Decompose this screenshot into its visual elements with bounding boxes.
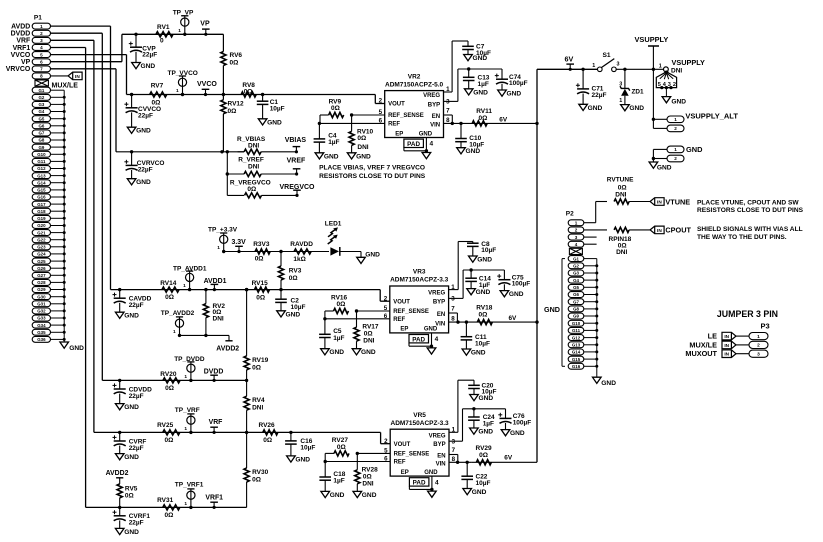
svg-text:1: 1 [674,147,677,152]
svg-text:G33: G33 [37,316,46,321]
svg-text:GND: GND [477,257,492,264]
svg-text:1kΩ: 1kΩ [293,256,305,263]
svg-text:S1: S1 [603,52,611,59]
net tick DVDD [204,368,224,382]
svg-text:GND: GND [267,119,282,126]
svg-text:IN: IN [657,199,662,204]
svg-text:GND: GND [473,55,488,62]
svg-text:GND: GND [478,429,493,436]
svg-text:2: 2 [575,228,578,233]
ground - RV28 [353,491,377,499]
svg-text:G12: G12 [37,166,46,171]
resistor R_VBIAS DNI [226,136,297,154]
svg-text:GND: GND [476,289,491,296]
svg-text:GND: GND [356,153,371,160]
LED LED1 [279,220,361,257]
ground - CAVDD [115,312,139,320]
test point TP_DVDD [174,356,205,382]
svg-text:VOUT: VOUT [388,102,405,108]
svg-text:VREG: VREG [429,433,446,439]
connector VSUPPLY_ALT [652,112,739,132]
svg-text:BYP: BYP [428,102,440,108]
svg-text:P2: P2 [566,211,574,218]
resistor R_VREGVCO 0ohm [227,179,297,198]
svg-text:RV19: RV19 [252,357,269,364]
svg-text:ADM7150ACPZ-3.3: ADM7150ACPZ-3.3 [391,420,450,427]
resistor RV19 0ohm [244,288,269,381]
wire VRF1 rail [86,506,247,508]
capacitor C71 22uF [576,68,607,105]
svg-text:6V: 6V [509,315,518,322]
ground - C5 [321,349,345,357]
svg-text:GND: GND [124,454,139,461]
svg-text:6V: 6V [504,455,513,462]
svg-text:G14: G14 [37,180,46,185]
svg-text:0Ω: 0Ω [337,301,346,308]
svg-text:1µF: 1µF [328,139,339,146]
wire S1 to VSUPPLY [616,68,663,71]
svg-text:EP: EP [395,131,403,137]
svg-text:G31: G31 [37,302,46,307]
resistor RV10 0ohm DNI [349,115,374,153]
svg-text:VR3: VR3 [413,269,426,276]
svg-text:RV1: RV1 [157,24,170,31]
resistor RV3 0ohm [278,252,301,290]
svg-text:2: 2 [674,126,677,131]
svg-text:GND: GND [124,313,139,320]
svg-text:RV15: RV15 [252,280,269,287]
svg-text:VRF: VRF [16,38,30,45]
resistor RV8 0ohm [241,82,256,97]
wire AVDD bus (P1 pin1) [51,26,111,290]
svg-text:1: 1 [176,88,179,94]
test point TP_VP [173,10,194,36]
svg-text:4: 4 [40,45,43,50]
P1 left pin name labels [6,23,31,73]
svg-text:G15: G15 [37,188,46,193]
svg-text:0Ω: 0Ω [363,473,372,480]
capacitor C24 1uF [468,407,495,428]
resistor RV28 0ohm DNI [355,453,378,491]
capacitor C11 10uF [461,322,490,349]
capacitor C8 10uF [449,241,497,290]
wire VR3 REF [323,317,390,320]
ground - C2 [277,311,301,319]
svg-text:GND: GND [544,305,560,314]
svg-text:PAD: PAD [407,141,420,148]
capacitor C1 10uF [257,93,285,119]
svg-text:1: 1 [674,117,677,122]
svg-text:PAD: PAD [412,336,425,343]
svg-text:2: 2 [379,98,383,105]
svg-text:G12: G12 [572,335,581,340]
capacitor CVRVCO 22uF [124,150,164,179]
svg-text:G28: G28 [37,280,46,285]
svg-text:0Ω: 0Ω [289,275,298,282]
svg-text:G10: G10 [37,152,46,157]
svg-text:1µF: 1µF [483,421,494,428]
ground - C71 [579,104,603,112]
svg-text:DNI: DNI [248,164,259,171]
connector P1 [32,15,50,343]
svg-text:100µF: 100µF [509,80,528,87]
svg-text:GND: GND [629,105,644,112]
svg-text:RV14: RV14 [160,280,177,287]
zener diode ZD1 [619,68,644,105]
svg-text:GND: GND [324,153,339,160]
svg-text:GND: GND [136,179,151,186]
svg-text:PLACE VBIAS, VREF 7 VREGVCO: PLACE VBIAS, VREF 7 VREGVCO [319,164,425,171]
ground - C76 [501,430,525,438]
connector P2 [566,211,584,370]
svg-text:VVCO: VVCO [11,52,31,59]
svg-text:R3V3: R3V3 [253,241,270,248]
wire 6V rail [535,69,538,462]
ground - C7 [464,55,488,63]
capacitor C22 10uF [461,462,490,488]
svg-text:4: 4 [430,141,434,148]
svg-text:DNI: DNI [213,316,224,323]
svg-text:GND: GND [466,148,481,155]
capacitor C20 10uF [449,380,496,432]
svg-text:GND: GND [69,345,84,352]
svg-text:0Ω: 0Ω [479,452,488,459]
note text shield signals [697,226,803,241]
svg-text:G15: G15 [572,357,581,362]
svg-text:22µF: 22µF [129,520,144,527]
svg-text:LED1: LED1 [325,220,342,227]
svg-text:4: 4 [575,242,578,247]
svg-text:RV11: RV11 [476,108,492,115]
wire DVDD rail [102,379,246,381]
capacitor C7 10uF [444,41,491,92]
ground - C24 [470,428,494,436]
svg-text:GND: GND [588,105,603,112]
ground - C8 [469,256,493,264]
svg-text:1: 1 [40,24,43,29]
wire VVCO feed (P1 pin5) [51,55,127,95]
svg-text:G23: G23 [37,245,46,250]
wire VP feed (P1 pin6) [51,34,122,61]
svg-text:REF_SENSE: REF_SENSE [388,113,424,119]
svg-text:0Ω: 0Ω [165,294,174,301]
svg-text:GND: GND [510,430,525,437]
svg-text:RV26: RV26 [259,422,276,429]
ground - CVP [132,63,156,71]
capacitor C14 1uF [465,268,491,289]
svg-text:G11: G11 [37,159,46,164]
wire VVCO rail [127,95,385,104]
svg-text:G2: G2 [573,264,579,269]
svg-text:G25: G25 [37,259,46,264]
ground - C22 [463,489,487,497]
resistor RV20 0ohm [160,371,180,392]
resistor RV29 0ohm [476,445,493,465]
svg-text:0Ω: 0Ω [263,437,272,444]
ground - C1 [258,119,282,127]
ground - ZD1 [621,105,645,113]
svg-text:7: 7 [446,108,450,115]
svg-text:G19: G19 [37,216,46,221]
wire VRF rail [94,432,390,443]
P2 ground bus wire [584,259,599,378]
P2 pin3 stub [584,236,597,238]
resistor RV17 0ohm DNI [354,311,379,349]
ground - LED1 [357,252,380,264]
svg-text:VR5: VR5 [413,412,426,419]
svg-text:G29: G29 [37,287,46,292]
svg-text:DNI: DNI [357,144,368,151]
resistor RV11 0ohm [472,108,492,126]
ground - CVRF1 [115,528,139,536]
svg-text:22µF: 22µF [138,166,153,173]
svg-text:TP_AVDD2: TP_AVDD2 [161,310,195,317]
svg-text:RV6: RV6 [230,52,243,59]
svg-text:P1: P1 [34,15,42,22]
capacitor C74 100uF [495,69,528,90]
ground - P2 bus [593,377,617,387]
resistor RV31 0ohm [157,497,180,519]
svg-text:0Ω: 0Ω [125,493,134,500]
test point TP_AVDD2 [161,310,195,337]
svg-text:EN: EN [437,312,445,318]
ground - RV17 [352,349,376,357]
resistor RV9 0ohm [320,98,385,123]
svg-text:G3: G3 [38,102,44,107]
svg-text:5: 5 [40,52,43,57]
svg-text:RVTUNE: RVTUNE [607,176,634,183]
svg-text:EN: EN [432,114,440,120]
svg-text:7: 7 [40,67,43,72]
svg-text:VREG: VREG [423,93,440,99]
svg-text:0Ω: 0Ω [337,444,346,451]
svg-text:0Ω: 0Ω [165,512,174,519]
resistor RV26 0ohm [245,422,278,444]
svg-text:IN: IN [657,228,662,233]
wire VP rail [122,33,223,35]
svg-text:7: 7 [452,447,456,454]
svg-text:1: 1 [173,329,176,335]
svg-text:0Ω: 0Ω [479,115,488,122]
ground - C13 [464,89,488,97]
capacitor CVRF 22uF [113,431,147,454]
ground - C16 [287,456,311,464]
wire VR2 REF [318,122,385,125]
svg-text:G10: G10 [572,321,581,326]
svg-text:GND: GND [424,470,438,476]
svg-text:VP: VP [200,20,210,27]
svg-text:G14: G14 [572,350,581,355]
svg-text:10µF: 10µF [270,105,285,112]
svg-text:ZD1: ZD1 [632,89,645,96]
capacitor CDVDD 22uF [113,379,153,404]
svg-text:DNI: DNI [362,480,373,487]
svg-text:VRF1: VRF1 [13,45,31,52]
capacitor C18 1uF [319,462,345,492]
regulator VR5 ADM7150ACPZ-3.3 [384,412,458,497]
svg-text:G3: G3 [573,271,579,276]
svg-text:1µF: 1µF [479,282,490,289]
svg-text:DNI: DNI [363,338,374,345]
svg-text:PAD: PAD [413,480,426,487]
svg-text:GND: GND [472,489,487,496]
wire 3.3V rail [224,251,329,253]
svg-text:G30: G30 [37,294,46,299]
capacitor CVRF1 22uF [113,506,151,529]
svg-text:G6: G6 [573,292,579,297]
svg-text:1: 1 [757,334,760,340]
ground - C20 [470,395,494,403]
svg-text:GND: GND [362,492,377,499]
svg-text:RV27: RV27 [332,437,349,444]
svg-text:AVDD2: AVDD2 [216,346,239,353]
svg-text:10µF: 10µF [476,480,491,487]
GND bracket P2 [544,259,565,367]
wire 6V top [537,68,597,70]
svg-text:PLACE VTUNE, CPOUT AND SW: PLACE VTUNE, CPOUT AND SW [697,199,799,206]
svg-text:G5: G5 [38,116,44,121]
svg-text:VOUT: VOUT [394,442,411,448]
svg-text:22µF: 22µF [142,52,157,59]
svg-text:3: 3 [617,62,620,68]
svg-text:3: 3 [40,38,43,43]
svg-text:G8: G8 [573,307,579,312]
wire VR5 REF [324,460,391,463]
svg-text:RV5: RV5 [125,485,138,492]
svg-text:BYP: BYP [433,442,445,448]
svg-text:10µF: 10µF [291,304,306,311]
svg-text:22µF: 22µF [129,302,144,309]
svg-text:6V: 6V [565,55,574,64]
ground - RV10 [347,153,371,161]
junction RV12 to rail [220,150,223,153]
svg-text:RAVDD: RAVDD [290,241,313,248]
svg-text:3: 3 [575,235,578,240]
net tick VVCO [197,81,217,96]
note text place vtune [697,199,804,214]
svg-text:EP: EP [400,327,408,333]
svg-text:1: 1 [619,98,622,104]
svg-text:22µF: 22µF [138,113,153,120]
svg-text:IN: IN [724,343,729,348]
svg-text:4: 4 [435,336,439,343]
svg-text:0Ω: 0Ω [364,331,373,338]
svg-text:GND: GND [657,165,672,172]
ground - C18 [321,491,345,499]
svg-text:0Ω: 0Ω [165,437,174,444]
svg-text:VVCO: VVCO [197,81,217,88]
svg-text:DNI: DNI [248,143,259,150]
svg-text:3: 3 [757,351,760,357]
svg-text:G17: G17 [37,202,46,207]
resistor RV6 0ohm [221,34,243,94]
svg-text:DNI: DNI [615,192,626,199]
svg-text:GND: GND [329,349,344,356]
svg-text:100µF: 100µF [512,281,531,288]
ground - CVRVCO [127,179,151,187]
ground - CVRF [115,454,139,462]
svg-text:DNI: DNI [671,67,682,74]
ground - P1 bus [60,342,84,352]
svg-text:G7: G7 [38,131,44,136]
svg-text:3.3V: 3.3V [232,239,247,246]
svg-text:G16: G16 [572,364,581,369]
resistor R3V3 0ohm [253,241,270,262]
svg-text:GND: GND [424,327,438,333]
svg-text:1: 1 [184,426,187,432]
svg-text:0Ω: 0Ω [252,476,261,483]
resistor RPIN18 0ohm DNI [584,227,650,256]
svg-text:VIN: VIN [430,123,440,129]
svg-text:3: 3 [451,296,455,303]
svg-text:REF: REF [394,460,406,466]
net tick 6V [565,55,575,71]
svg-text:GND: GND [330,492,345,499]
svg-text:BYP: BYP [433,299,445,305]
svg-text:REF_SENSE: REF_SENSE [393,309,429,315]
svg-text:DNI: DNI [616,249,627,256]
svg-text:GND: GND [601,380,616,387]
resistor RV4 DNI [244,379,265,433]
svg-text:0Ω: 0Ω [228,108,237,115]
svg-text:3: 3 [446,99,450,106]
svg-text:8: 8 [40,74,43,79]
resistor RV25 0ohm [157,422,180,444]
svg-text:G32: G32 [37,309,46,314]
resistor RV15 0ohm [245,280,270,302]
svg-text:P3: P3 [761,321,770,330]
svg-text:G9: G9 [38,145,44,150]
wire AVDD2 branch [180,334,230,341]
ground - GND jumper [649,162,672,172]
svg-text:MUX/LE: MUX/LE [52,83,79,90]
ground - C11 [462,349,486,357]
svg-text:R_VREF: R_VREF [238,157,264,164]
P2 pin4 stub [584,243,597,245]
svg-text:VSUPPLY_ALT: VSUPPLY_ALT [685,112,738,121]
svg-text:2: 2 [673,82,676,88]
svg-text:0Ω: 0Ω [230,60,239,67]
svg-text:IN: IN [75,74,80,79]
svg-text:VRVCO: VRVCO [6,66,31,73]
svg-text:GND: GND [473,89,488,96]
svg-text:G27: G27 [37,273,46,278]
svg-text:G16: G16 [37,195,46,200]
svg-text:TP_VRF1: TP_VRF1 [175,482,204,489]
test point TP_AVDD1 [173,265,207,291]
wire VR2 BYP [444,69,503,101]
svg-text:G1: G1 [38,88,44,93]
svg-text:10µF: 10µF [481,247,496,254]
svg-text:CPOUT: CPOUT [665,226,691,235]
test point TP_+3.3V [208,227,238,254]
svg-text:VR2: VR2 [408,73,421,80]
svg-text:RV25: RV25 [157,422,174,429]
resistor RV7 0ohm [150,83,167,107]
svg-text:VRF: VRF [209,419,223,426]
wire VR3 VIN 6V [449,315,537,324]
net tick VBIAS [285,137,307,153]
svg-text:G13: G13 [572,343,581,348]
svg-text:1: 1 [217,245,220,251]
svg-text:VIN: VIN [436,462,446,468]
svg-text:0Ω: 0Ω [252,364,261,371]
svg-text:2: 2 [674,156,677,161]
svg-text:G4: G4 [573,278,579,283]
svg-text:ADM7150ACPZ-5.0: ADM7150ACPZ-5.0 [385,81,444,88]
resistor RVTUNE 0ohm DNI [584,176,650,222]
svg-text:EN: EN [437,454,445,460]
